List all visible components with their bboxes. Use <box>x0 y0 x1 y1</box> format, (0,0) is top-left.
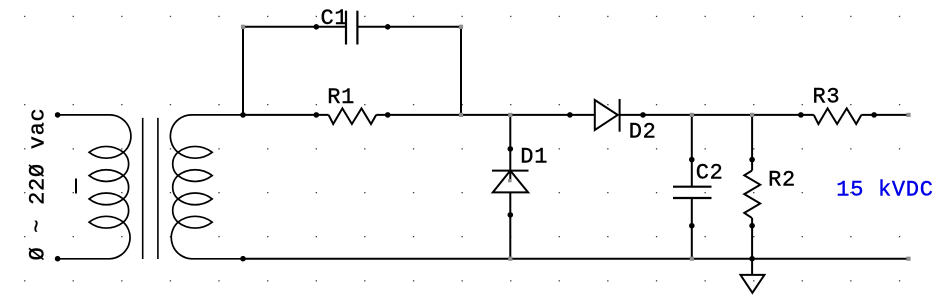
wire bottom main <box>243 258 909 260</box>
grip: C1 loop top-right corner <box>459 25 463 29</box>
wire D1 branch upper <box>509 115 511 182</box>
wire C1 branch right leg <box>460 27 462 115</box>
wire top main <box>243 114 909 116</box>
junction: R3 pin 1 <box>798 112 804 118</box>
svg-text:R2: R2 <box>768 168 796 193</box>
wire ground stub <box>751 259 753 275</box>
junction: secondary bottom node <box>240 256 246 262</box>
wire R2 branch lower <box>751 218 753 259</box>
junction: C2 pin 2 <box>689 223 695 229</box>
junction: primary top terminal <box>55 112 61 118</box>
capacitor C1 <box>346 11 357 45</box>
grip: top wire right end <box>906 113 910 117</box>
diode D1 <box>492 171 529 193</box>
diode D2 <box>595 99 620 132</box>
grip: C2 branch top node <box>690 113 694 117</box>
junction: primary bottom terminal <box>55 256 61 262</box>
transformer T1 secondary winding <box>170 115 243 259</box>
svg-text:R1: R1 <box>327 85 355 110</box>
junction: C1 pin 1 <box>314 24 320 30</box>
junction: D2 anode pin <box>567 112 573 118</box>
junction: C1 pin 2 <box>385 24 391 30</box>
capacitor C2 <box>673 187 712 198</box>
junction: ground node on bottom wire <box>749 256 755 262</box>
svg-text:D1: D1 <box>520 144 548 169</box>
grip: C1 loop bottom-right corner <box>459 113 463 117</box>
grip: D1 branch top node <box>508 113 512 117</box>
primary polarity dash <box>75 179 77 194</box>
resistor R1 <box>329 108 377 124</box>
wire D1 branch lower <box>509 192 511 258</box>
wire C1 branch left leg <box>242 27 244 115</box>
svg-text:C2: C2 <box>696 161 724 186</box>
grip: R2 branch top node <box>750 113 754 117</box>
junction: D1 cathode pin <box>508 146 514 152</box>
svg-text:R3: R3 <box>813 85 841 110</box>
junction: R1 pin 1 <box>314 112 320 118</box>
junction: R2 pin 2 <box>749 223 755 229</box>
grip: D1 insertion point <box>508 179 511 182</box>
wire C1 branch top <box>243 26 461 28</box>
grip: C2 branch bottom node <box>690 257 694 261</box>
transformer core <box>142 118 144 259</box>
junction: C2 pin 1 <box>689 157 695 163</box>
wire R2 branch upper <box>751 115 753 171</box>
wire C2 branch lower <box>691 198 693 259</box>
junction: D2 cathode pin <box>640 112 646 118</box>
junction: R2 pin 1 <box>749 157 755 163</box>
svg-text:15 kVDC: 15 kVDC <box>836 178 933 203</box>
grip: D1 branch bottom node <box>508 257 512 261</box>
svg-text:D2: D2 <box>629 119 657 144</box>
wire C2 branch upper <box>691 115 693 187</box>
grip: C1 loop top-left corner <box>241 25 245 29</box>
svg-text:Ø ~ 22Ø vac: Ø ~ 22Ø vac <box>26 108 51 261</box>
svg-text:C1: C1 <box>321 6 349 31</box>
junction: R3 pin 2 <box>871 112 877 118</box>
resistor R3 <box>814 108 862 124</box>
ground <box>741 275 765 293</box>
junction: secondary top / C1-branch node <box>240 112 246 118</box>
transformer T1 primary winding <box>58 115 131 259</box>
grip: bottom wire right end <box>906 257 910 261</box>
resistor R2 <box>744 171 760 218</box>
junction: R1 pin 2 <box>385 112 391 118</box>
junction: D1 anode pin <box>508 212 514 218</box>
